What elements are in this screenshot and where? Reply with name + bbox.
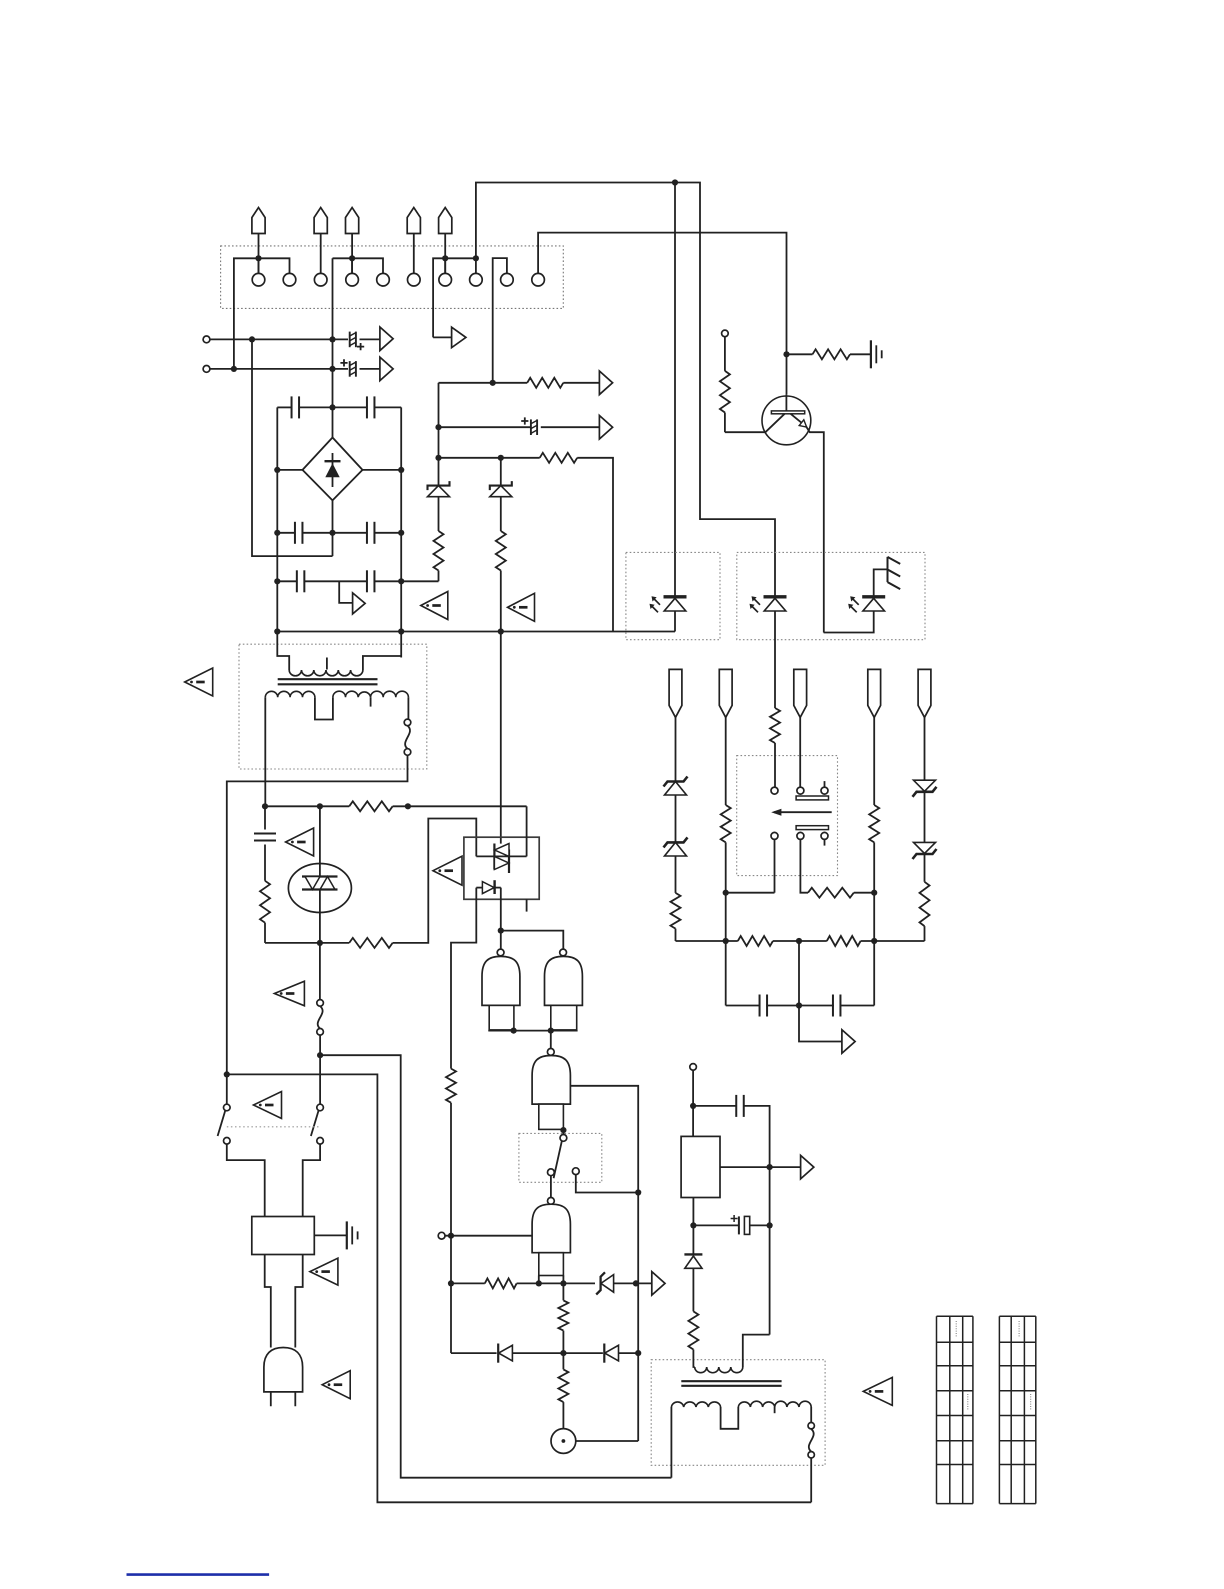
wire P1 chain <box>675 717 677 781</box>
transformer T1 core <box>278 679 378 684</box>
junction line1 center vertical <box>329 336 335 342</box>
switch S1 common <box>560 1135 567 1142</box>
gate B <box>560 949 567 956</box>
diode D3 <box>497 1344 499 1363</box>
junction gate C output <box>560 1127 566 1133</box>
wire P4 chain <box>873 717 875 805</box>
wire line A <box>439 382 528 384</box>
resistor R7 <box>264 845 266 881</box>
junction D2 chain <box>498 455 504 461</box>
warning symbol triac <box>286 828 314 856</box>
wire LED3 anode to chassis <box>874 569 888 596</box>
wire relay link <box>726 892 775 894</box>
Q2 collector <box>725 414 785 432</box>
transformer T2 secondary winding <box>671 1402 720 1407</box>
junction line2 center vertical <box>329 366 335 372</box>
wire D2 chain to opto triac <box>500 571 502 844</box>
relay contact bottom B <box>797 832 804 839</box>
wire line C <box>439 457 540 459</box>
terminal lug TR1 <box>669 669 682 717</box>
junction P4-relay resistor <box>871 890 877 896</box>
resistor R21 <box>827 936 861 946</box>
opto triac U1 box <box>464 837 539 899</box>
terminal lug T1 <box>252 208 265 234</box>
resistor R12 <box>558 1369 568 1402</box>
table tiny text marks <box>955 1321 957 1337</box>
terminal lug T4 <box>407 208 420 234</box>
wire lower bus <box>676 940 738 942</box>
wire jog line1 to bridge bottom <box>252 339 333 556</box>
opto LED D6 <box>476 887 482 889</box>
gate A <box>497 949 504 956</box>
pin 9 of J1 <box>501 273 514 286</box>
diode D4 <box>603 1344 605 1363</box>
capacitor C9 <box>366 570 368 592</box>
junction line2 left vertical <box>231 366 237 372</box>
switch S1 blade <box>554 1141 562 1178</box>
resistor R18 <box>920 882 930 926</box>
wire triac MT1 down to fuse <box>319 943 321 1000</box>
wire supply down <box>692 1070 694 1136</box>
junction gate A/B input node <box>498 928 504 934</box>
regulator U2 box <box>681 1136 720 1197</box>
junction P2-relay <box>723 890 729 896</box>
wire line2 neutral <box>210 368 348 370</box>
thermal fuse F3 <box>808 1423 814 1429</box>
terminal lug TR4 <box>868 669 881 717</box>
wire dc bus <box>277 631 675 633</box>
diode D5 <box>684 1253 702 1255</box>
wire NC to rail <box>576 1175 638 1193</box>
resistor R14 <box>813 349 851 359</box>
junction P2-bus <box>723 938 729 944</box>
wire right rail <box>400 407 402 657</box>
junction R6-opto <box>405 803 411 809</box>
capacitor C13 <box>735 1095 737 1117</box>
terminal lug T2 <box>314 208 327 234</box>
wire ecap row <box>693 1224 739 1226</box>
resistor R22 <box>692 1268 694 1311</box>
capacitor C8 <box>277 580 297 582</box>
warning symbol bridge-right <box>508 593 535 621</box>
photocoupler PC2 dotted box <box>737 552 925 639</box>
wire bus segment pins4-5 <box>333 258 384 273</box>
relay RY1 dotted box <box>737 756 838 876</box>
pin 10 of J1 <box>532 273 545 286</box>
junction diode line motor <box>560 1350 566 1356</box>
earth ground <box>346 1221 348 1249</box>
wire center snubber drop <box>799 941 842 1042</box>
wire fuse to left rail down <box>227 755 408 1104</box>
test point arrow TP1 <box>380 327 393 351</box>
opto unconnected stub <box>526 899 528 911</box>
test point arrow TP5 <box>599 371 612 395</box>
capacitor C4 <box>277 406 291 408</box>
wire gate line top <box>265 805 349 807</box>
terminal base pullup <box>722 330 729 337</box>
switch S1 contact NC <box>572 1168 579 1175</box>
test point arrow TP9 <box>801 1155 814 1179</box>
LED2 <box>764 595 787 598</box>
wire motor to rail <box>576 1440 638 1442</box>
wire line B <box>439 426 531 428</box>
junction bus right rail <box>398 628 404 634</box>
terminal E1 <box>203 336 210 343</box>
junction interlock node <box>317 1052 323 1058</box>
junction rail-gateD input <box>448 1233 454 1239</box>
wire interlock right rail A <box>227 1074 811 1502</box>
pin 2 of J1 <box>283 273 296 286</box>
gate D <box>548 1198 555 1205</box>
pin 7 of J1 <box>439 273 452 286</box>
wire fuse F2 to node <box>319 1035 321 1104</box>
wire switch outputs to filter <box>227 1144 265 1216</box>
pin 3 of J1 <box>314 273 327 286</box>
wire bus segment pins1-2 <box>234 258 290 369</box>
junction pin7 <box>442 255 448 261</box>
terminal lug TR3 <box>794 669 807 717</box>
resistor R19 <box>808 888 854 898</box>
transformer T2 dotted box <box>651 1360 825 1466</box>
wire interlock right rail B <box>320 1055 671 1478</box>
warning symbol fuse F2 <box>274 981 304 1006</box>
wire pin10 to transistor base <box>538 233 786 395</box>
junction pin9 drop <box>490 380 496 386</box>
relay contact top A <box>771 787 778 794</box>
thermal fuse F1 <box>404 719 411 726</box>
junction bus left rail <box>274 628 280 634</box>
resistor R6 <box>349 801 392 811</box>
junction bus center <box>796 938 802 944</box>
resistor R1 <box>527 378 563 388</box>
terminal lug T5 <box>439 208 452 234</box>
zener D11 <box>914 842 936 853</box>
relay contact top C <box>821 787 828 794</box>
transformer T1 primary winding <box>277 632 289 671</box>
wire filter to plug <box>265 1255 271 1348</box>
pin 4 of J1 <box>346 273 359 286</box>
wire rail left down <box>450 1103 452 1353</box>
diode D2 <box>500 458 502 486</box>
interlock switch S2 <box>224 1104 231 1111</box>
motor M1 <box>551 1429 576 1454</box>
terminal supply <box>690 1064 697 1071</box>
wire gate D input <box>445 1235 532 1237</box>
resistor R3 <box>540 453 578 463</box>
wire line C to photocoupler return <box>577 458 613 632</box>
chassis ground <box>888 557 901 589</box>
relay bottom bar <box>796 826 828 830</box>
transformer T1 dotted box <box>239 644 427 769</box>
wire bridge right vertex <box>363 469 402 471</box>
wire Q2 emitter to LED3 <box>824 611 874 633</box>
resistor R10 <box>485 1278 517 1288</box>
relay contact bottom A <box>771 832 778 839</box>
capacitor C5 <box>366 396 368 418</box>
pin 5 of J1 <box>377 273 390 286</box>
capacitor C3 <box>530 419 532 435</box>
junction pin1 <box>255 255 261 261</box>
pin 6 of J1 <box>408 273 421 286</box>
wire NO to gate D <box>550 1176 552 1198</box>
junction pin8 <box>473 255 479 261</box>
wire T1 secondary left end <box>264 697 266 806</box>
wire T2 secondary left <box>670 1407 672 1478</box>
junction triac MT2 <box>317 803 323 809</box>
resistor R8 <box>349 938 392 948</box>
Q2 emitter with arrow <box>791 414 807 427</box>
test point arrow TP2 <box>380 357 393 381</box>
warning symbol T2 <box>863 1377 892 1405</box>
warning symbol bridge-left <box>421 592 448 620</box>
junction bus D2 chain <box>498 628 504 634</box>
resistor R13 <box>724 337 726 371</box>
wire opto LED anode down to logic <box>451 888 476 1069</box>
junction Q2 base node <box>783 351 789 357</box>
resistor R16 <box>721 805 731 842</box>
junction supply-cap <box>690 1103 696 1109</box>
wire gate outputs bus <box>489 1029 577 1032</box>
zener D10 <box>914 780 936 791</box>
transformer T1 secondary winding <box>265 691 315 697</box>
junction cap row center <box>329 404 335 410</box>
LED1 <box>664 595 687 598</box>
warning symbol plug <box>322 1371 350 1399</box>
triac Q1 <box>288 864 351 913</box>
junction secondary-cap chain <box>262 803 268 809</box>
wire pin8 up to top rail <box>476 183 775 597</box>
transistor Q2 <box>762 396 811 445</box>
wire bus segment pins7-8 to test point <box>433 258 476 337</box>
resistor R20 <box>738 936 773 946</box>
table grid 1 <box>937 1316 973 1503</box>
junction output-cap rail <box>767 1164 773 1170</box>
diode line <box>451 1352 497 1354</box>
resistor R15 <box>671 893 681 929</box>
relay top bar <box>796 796 828 800</box>
wire pin9 hook to line A <box>493 258 507 383</box>
resistor R17 <box>869 805 879 842</box>
wire top cap row <box>693 1105 736 1107</box>
junction U2-ecap <box>690 1222 696 1228</box>
diode D1 <box>428 481 450 490</box>
terminal lug TR5 <box>918 669 931 717</box>
warning symbol opto <box>433 856 462 885</box>
footer link line <box>127 1573 270 1576</box>
terminal lug TR2 <box>719 669 732 717</box>
wire opto right terminal up <box>526 806 528 856</box>
junction line1-bridge jog <box>249 336 255 342</box>
capacitor C12 <box>832 995 834 1017</box>
test point arrow TP3 <box>433 336 452 338</box>
wire T2 secondary right <box>810 1407 812 1422</box>
wire gate line bottom <box>265 942 349 944</box>
LED3 <box>862 595 885 598</box>
wire bottom bus <box>451 1282 485 1284</box>
test point arrow TP6 <box>599 415 612 439</box>
wire filter to earth <box>314 1234 347 1236</box>
wire U2 output <box>720 1166 801 1168</box>
wire T1 secondary right end <box>407 697 409 719</box>
resistor R4 <box>438 497 440 531</box>
junction bus-rail right <box>633 1280 639 1286</box>
junction diode line rail <box>635 1350 641 1356</box>
test point arrow TP8 <box>842 1030 855 1054</box>
pin 8 of J1 <box>470 273 483 286</box>
wire bridge left vertex <box>277 469 302 471</box>
junction triac MT1 <box>317 940 323 946</box>
junction rail-NC <box>635 1189 641 1195</box>
wire R8 up-over to opto <box>393 819 477 943</box>
capacitor C10 <box>264 806 266 829</box>
door switch S1 dotted box <box>519 1133 602 1182</box>
interlock switch S3 <box>317 1104 324 1111</box>
wire LED2 chain resistor <box>770 708 780 743</box>
wire bridge bottom to mid caps <box>332 500 334 556</box>
switch gang dotted link <box>227 1126 320 1128</box>
relay contact top B <box>797 787 804 794</box>
terminal lug T3 <box>346 208 359 234</box>
warning symbol filter <box>310 1258 338 1285</box>
wire base node to R14 <box>787 353 813 355</box>
relay contact bottom C <box>821 832 828 839</box>
junction pin4 <box>349 255 355 261</box>
wire to opto triac right <box>393 805 527 807</box>
test point arrow TP4 <box>353 593 366 614</box>
wire opto mid bar <box>476 855 526 857</box>
wire P5 chain <box>924 717 926 780</box>
terminal input gate D <box>438 1232 445 1239</box>
zener D8 <box>664 777 688 787</box>
terminal E2 <box>203 366 210 373</box>
zener D7 <box>596 1272 605 1294</box>
relay actuation arrow <box>774 811 832 813</box>
capacitor C1 <box>349 332 351 348</box>
wire bus corner to LED1 <box>674 611 676 632</box>
wire line1 live <box>210 338 348 340</box>
wire jog to test point TP4 <box>339 581 352 603</box>
wire opto LED cathode down <box>500 888 502 950</box>
wire LED2 cathode down <box>774 611 776 708</box>
junction node top rail <box>672 179 678 185</box>
capacitor C11 <box>759 995 761 1017</box>
wire snubber row <box>726 1005 761 1007</box>
thermal fuse F2 <box>317 1000 324 1007</box>
wire to gate B bubble <box>501 931 564 950</box>
zener D9 <box>664 837 688 847</box>
wire switch top node <box>224 1071 230 1077</box>
wire P3 to relay <box>799 717 801 787</box>
warning symbol switches <box>254 1092 282 1119</box>
wire top rail branch to photocoupler LED1 <box>674 183 676 597</box>
wire left rail <box>276 407 278 631</box>
wire U2 bottom <box>692 1198 694 1255</box>
capacitor C14 electrolytic <box>738 1216 740 1234</box>
warning symbol T1 <box>185 668 213 696</box>
opto triac U1 triangles <box>493 844 495 870</box>
photocoupler PC1 dotted box <box>626 552 720 639</box>
capacitor C2 <box>349 361 351 377</box>
gate C <box>547 1049 554 1056</box>
wire P2 chain <box>725 717 727 805</box>
resistor R11 <box>558 1300 568 1330</box>
wire gate C side output to rail <box>570 1086 638 1441</box>
switch S1 contact NO <box>548 1169 555 1176</box>
line filter FL1 box <box>252 1217 314 1255</box>
connector J1 dotted box <box>221 246 564 309</box>
junction P4-bus <box>871 938 877 944</box>
wire relay bottom A <box>774 839 776 892</box>
wire center vertical bus to bridge <box>332 258 334 437</box>
test point arrow TP7 <box>652 1272 665 1296</box>
wire relay bottom B to R19 <box>800 839 808 892</box>
wire to gate C bubble <box>550 1031 552 1049</box>
transformer T2 primary winding <box>693 1350 694 1368</box>
wire gate D outputs to bus <box>539 1276 564 1284</box>
resistor R5 <box>500 497 502 531</box>
signal ground <box>870 340 872 368</box>
pin 1 of J1 <box>252 273 265 286</box>
mains plug P1 <box>264 1348 303 1392</box>
resistor R9 <box>446 1069 456 1103</box>
transformer T2 core <box>681 1381 781 1386</box>
capacitor C6 <box>277 532 295 534</box>
wire vertical D1 chain top <box>438 383 440 486</box>
bridge rectifier DB1 <box>303 438 363 501</box>
capacitor C7 <box>366 522 368 544</box>
